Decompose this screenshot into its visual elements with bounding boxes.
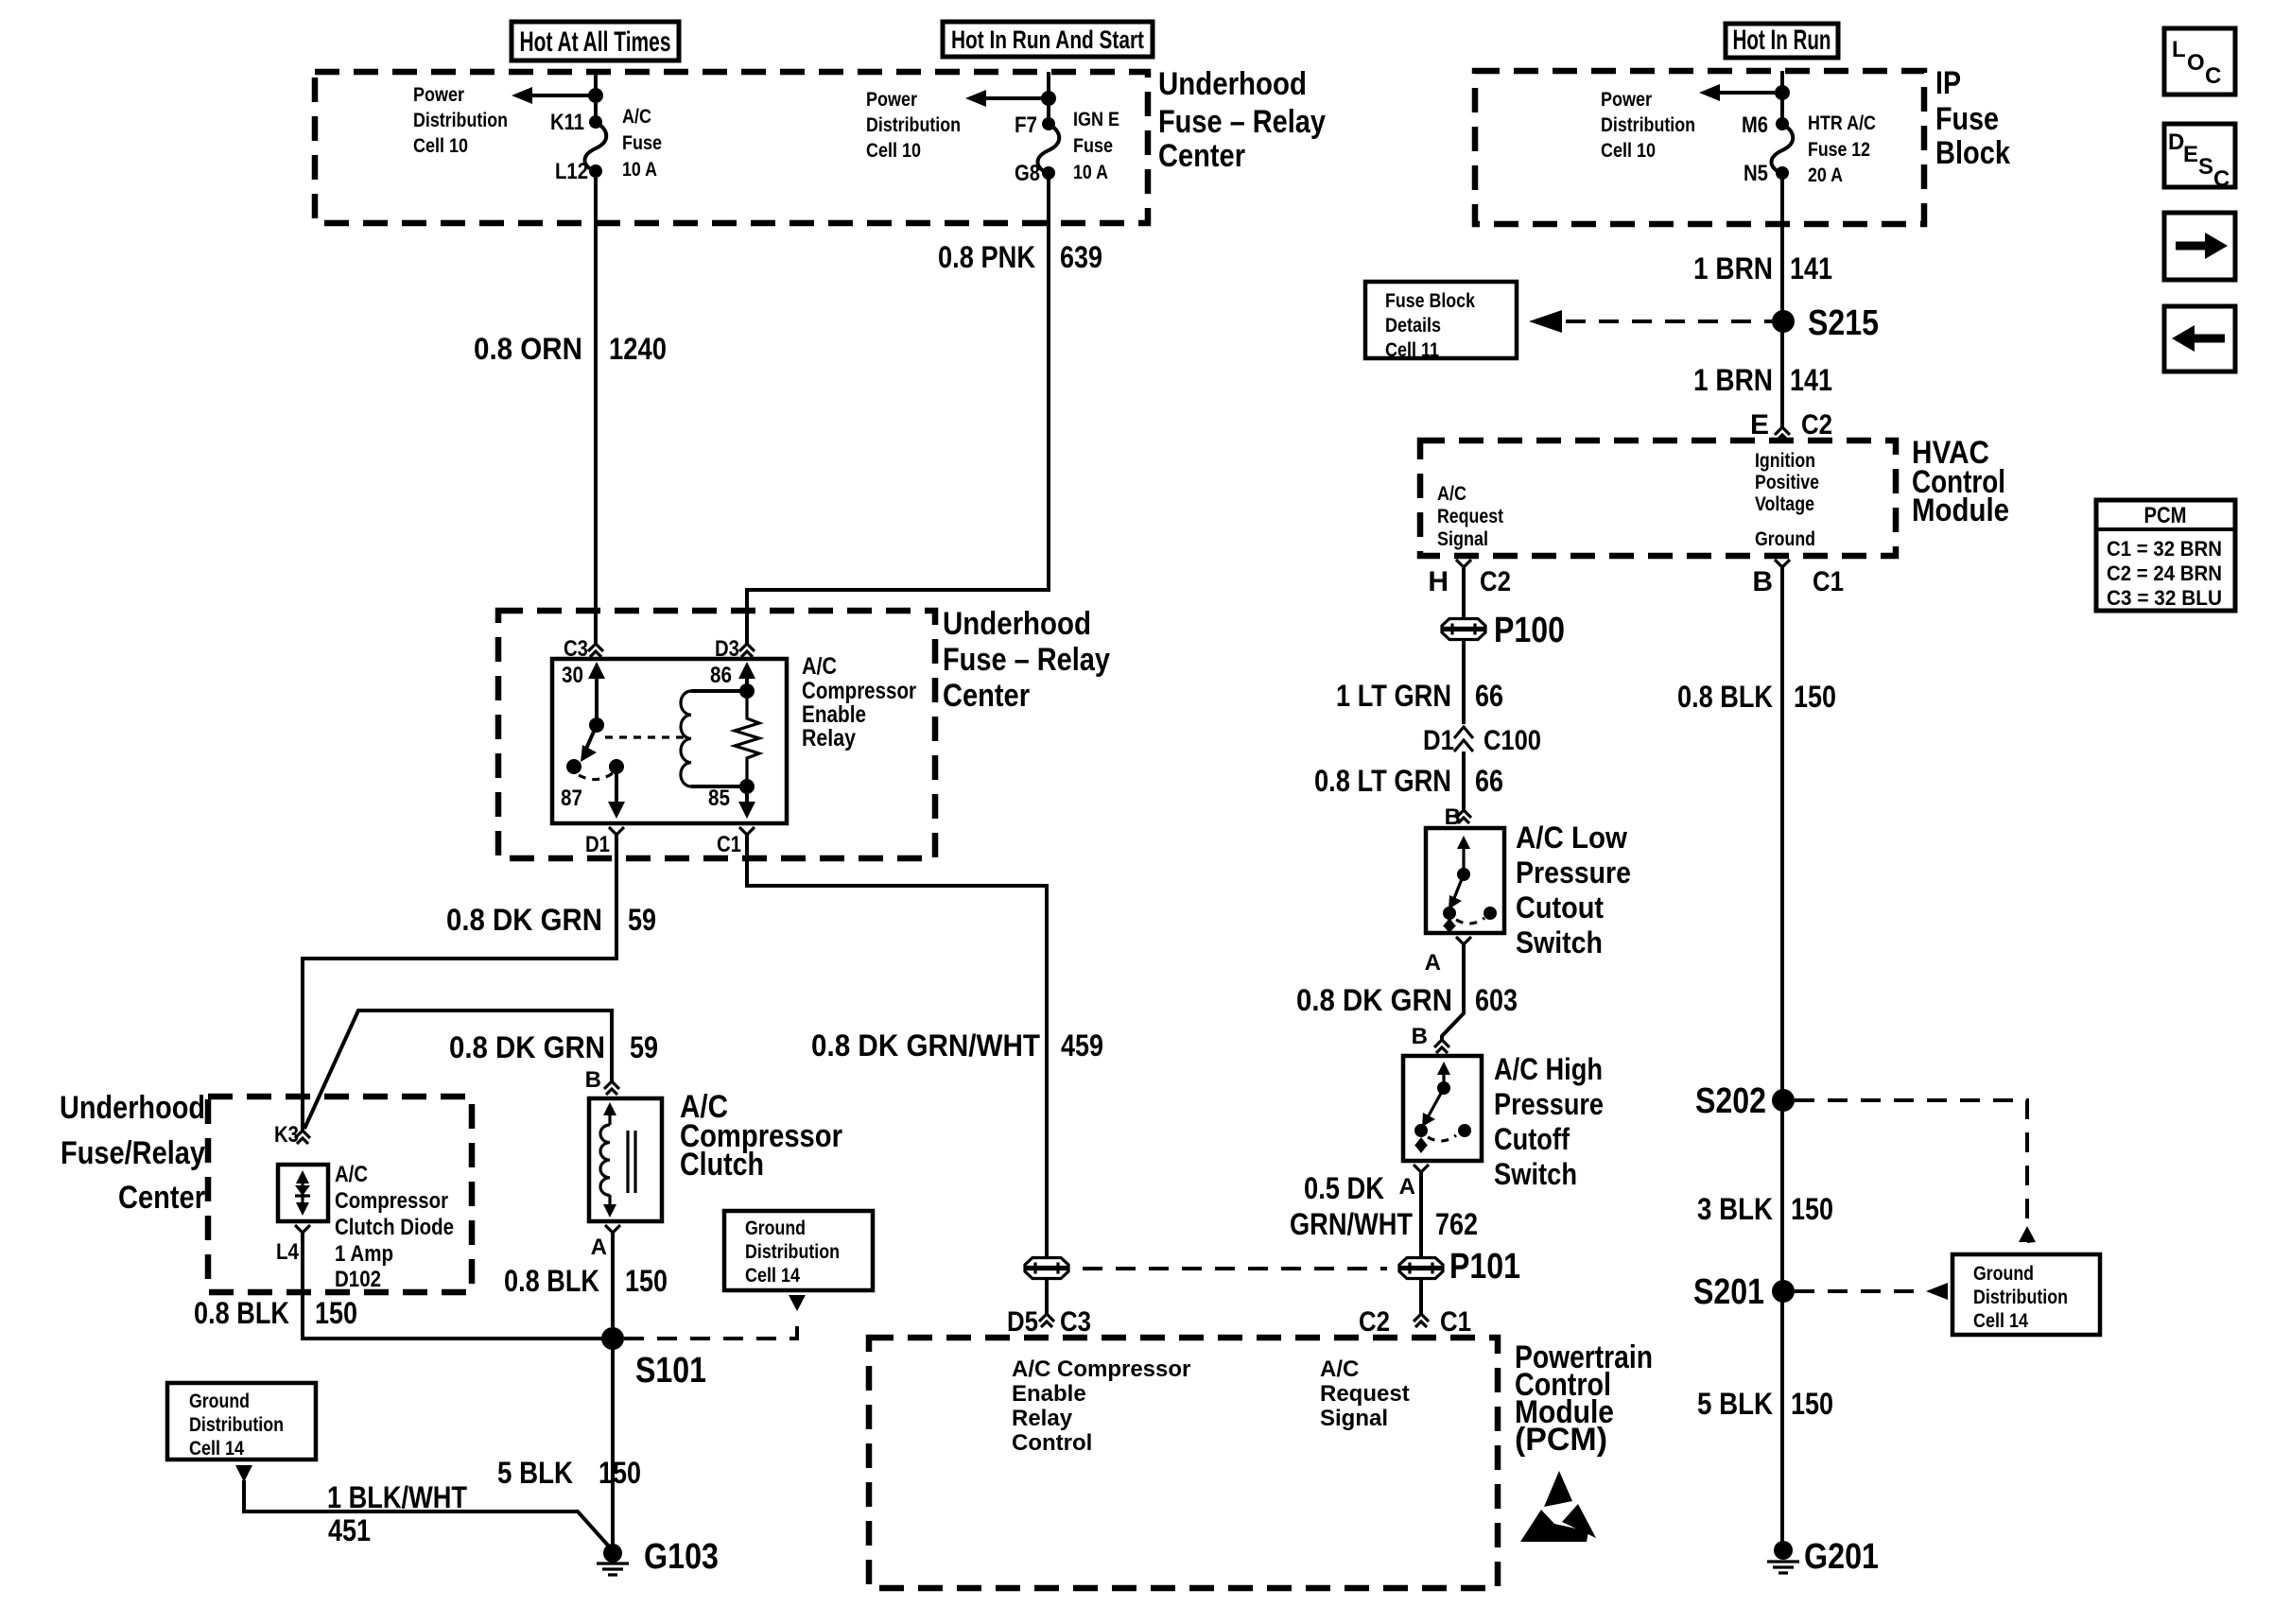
clutch A/C Compressor Clutch box [589, 1098, 662, 1221]
svg-text:Hot At All Times: Hot At All Times [520, 26, 671, 58]
wire branch from K3 node to A/C compressor clutch B [304, 1011, 612, 1129]
svg-text:C3: C3 [1060, 1306, 1091, 1338]
svg-text:C100: C100 [1484, 725, 1541, 756]
svg-text:Compressor: Compressor [802, 678, 916, 704]
svg-text:141: 141 [1790, 251, 1832, 285]
svg-text:Block: Block [1935, 135, 2010, 171]
wire 0.8 PNK 639 from fuse G8 down-left to relay D3 [747, 173, 1049, 644]
relay armature dashed throw arc [579, 773, 613, 780]
node DESC legend box [2164, 124, 2235, 192]
svg-text:150: 150 [315, 1296, 357, 1330]
connector C100 inline D1 [1423, 725, 1541, 756]
svg-text:A/C: A/C [622, 106, 651, 128]
relay coil [681, 662, 755, 794]
svg-text:Ground: Ground [1755, 528, 1815, 550]
connector D5 C3 into PCM [1007, 1306, 1091, 1338]
svg-text:Cell 10: Cell 10 [1601, 140, 1656, 162]
svg-text:C: C [2213, 166, 2230, 192]
svg-text:Distribution: Distribution [189, 1414, 284, 1436]
svg-text:0.8 DK GRN/WHT: 0.8 DK GRN/WHT [811, 1028, 1040, 1063]
wire 0.8 ORN 1240 from fuse L12 down to relay C3 [594, 171, 598, 644]
svg-text:Distribution: Distribution [866, 114, 961, 136]
svg-text:Compressor: Compressor [335, 1188, 448, 1214]
svg-text:Distribution: Distribution [1601, 114, 1695, 136]
connector B into high pressure switch [1412, 1024, 1449, 1053]
label 0.8 DK GRN 59 (lower) [449, 1030, 658, 1064]
svg-text:C1: C1 [717, 832, 741, 857]
wire 0.8 BLK 150 from L4 to S101 [303, 1233, 613, 1339]
svg-text:A/C High: A/C High [1494, 1052, 1603, 1086]
ground G201 [1767, 1537, 1879, 1577]
svg-text:Distribution: Distribution [1973, 1287, 2068, 1308]
relay A/C Compressor Enable Relay box [552, 659, 787, 823]
wire 0.8 DK GRN/WHT 459 from relay C1 to PCM D5 C3 [747, 835, 1047, 1258]
svg-text:P100: P100 [1494, 611, 1565, 650]
wire 0.8 DK GRN 59 from relay D1 down-left [303, 835, 616, 1131]
svg-text:A/C: A/C [1437, 483, 1466, 505]
svg-text:C2 = 24 BRN: C2 = 24 BRN [2107, 561, 2222, 585]
label 0.8 BLK 150 (right) [1677, 680, 1836, 714]
svg-text:Relay: Relay [1012, 1406, 1073, 1431]
svg-text:Fuse – Relay: Fuse – Relay [943, 642, 1110, 678]
PCM powertrain control module dashed box [869, 1338, 1498, 1588]
svg-text:Cell 14: Cell 14 [189, 1438, 244, 1460]
node LOC legend box [2164, 28, 2235, 95]
splice S201 [1693, 1272, 1795, 1312]
svg-text:Center: Center [1158, 138, 1245, 174]
fuse A/C Fuse 10A K11-L12 [584, 115, 606, 178]
connector L4 out of clutch diode [276, 1225, 310, 1265]
underhood fuse-relay center dashed box (top) [315, 72, 1148, 223]
svg-text:Cell 11: Cell 11 [1385, 339, 1439, 361]
svg-text:A/C Compressor: A/C Compressor [1012, 1356, 1190, 1382]
svg-text:59: 59 [630, 1030, 658, 1064]
svg-text:0.8 ORN: 0.8 ORN [474, 332, 582, 366]
diode D102 internals [295, 1170, 310, 1216]
svg-text:20 A: 20 A [1808, 164, 1843, 186]
svg-text:86: 86 [710, 663, 732, 688]
connector P101 pass-through [1398, 1247, 1520, 1287]
wire 0.8 BLK 150 from clutch A to S101 [611, 1233, 615, 1339]
wire arrow to Power Distribution (left) [512, 87, 603, 104]
svg-text:Fuse: Fuse [1073, 135, 1113, 157]
svg-text:B: B [1412, 1024, 1428, 1049]
splice S215 [1772, 303, 1879, 343]
label 0.8 DK GRN 59 (upper) [446, 903, 656, 937]
svg-text:87: 87 [561, 786, 582, 811]
dashed link between pass-through connectors [1083, 1267, 1387, 1270]
svg-text:Request: Request [1320, 1381, 1410, 1407]
svg-text:S201: S201 [1693, 1272, 1764, 1312]
svg-text:Center: Center [118, 1180, 205, 1216]
label 1 BLK/WHT 451 [327, 1480, 467, 1547]
label 0.8 DK GRN 603 [1296, 983, 1518, 1017]
label Underhood Fuse-Relay Center (relay) [943, 606, 1110, 714]
node Hot In Run header [1726, 24, 1838, 58]
label 1 LT GRN 66 [1336, 679, 1503, 713]
relay pin 87 contact [561, 759, 625, 819]
svg-text:0.8 DK GRN: 0.8 DK GRN [1296, 983, 1452, 1017]
svg-text:Clutch Diode: Clutch Diode [335, 1215, 454, 1240]
node Ground Distribution Cell 14 box (right) [1952, 1254, 2100, 1335]
svg-text:150: 150 [599, 1456, 641, 1490]
label A/C Compressor Enable Relay [802, 653, 916, 752]
svg-text:C: C [2205, 63, 2221, 89]
svg-text:66: 66 [1475, 764, 1503, 798]
svg-text:P101: P101 [1449, 1247, 1520, 1287]
node Hot In Run And Start header [943, 22, 1153, 57]
svg-text:E: E [2183, 142, 2198, 167]
splice S202 [1695, 1081, 1795, 1121]
svg-text:Underhood: Underhood [943, 606, 1091, 642]
svg-text:C1: C1 [1813, 566, 1844, 597]
svg-text:E: E [1750, 409, 1769, 441]
svg-text:C1: C1 [1440, 1306, 1471, 1338]
label 1 BRN 141 (upper) [1693, 251, 1832, 285]
connector A out of low pressure switch [1425, 937, 1471, 976]
svg-text:451: 451 [328, 1513, 371, 1547]
svg-text:459: 459 [1061, 1028, 1103, 1063]
svg-text:85: 85 [708, 786, 730, 811]
wire from Hot In Run And Start into fuse box [1047, 72, 1050, 124]
label A/C Request Signal (PCM) [1320, 1356, 1410, 1431]
wire from Hot At All Times into fuse box [594, 72, 598, 122]
svg-text:Ground: Ground [745, 1218, 806, 1239]
clutch coil internals [600, 1102, 635, 1218]
connector A out of clutch [591, 1225, 620, 1260]
node left-arrow legend box [2164, 306, 2235, 371]
svg-text:H: H [1428, 566, 1449, 597]
label 0.8 BLK 150 (clutch branch) [504, 1264, 668, 1298]
relay armature arrow from pin30 toward 87 [566, 725, 597, 774]
dashed reference from S201 to Ground Distribution [1795, 1283, 1948, 1300]
svg-text:0.8 DK GRN: 0.8 DK GRN [446, 903, 602, 937]
svg-text:1 BRN: 1 BRN [1693, 363, 1773, 397]
label A/C Request Signal (HVAC) [1437, 483, 1503, 550]
IP fuse block dashed box [1475, 71, 1924, 224]
svg-text:G8: G8 [1015, 161, 1040, 186]
label A/C Compressor Enable Relay Control (PCM) [1012, 1356, 1190, 1456]
svg-text:1 BLK/WHT: 1 BLK/WHT [327, 1480, 467, 1514]
label 1 BRN 141 (lower) [1693, 363, 1832, 397]
node Ground Distribution Cell 14 box (lower left) [167, 1383, 316, 1460]
underhood fuse-relay center dashed box (relay) [498, 611, 935, 858]
svg-text:0.8 LT GRN: 0.8 LT GRN [1314, 764, 1451, 798]
relay pin 85 lead [708, 786, 755, 819]
wire from P101 to PCM C2 C1 [1419, 1279, 1423, 1314]
svg-text:PCM: PCM [2144, 503, 2187, 528]
connector D3 into relay [715, 636, 755, 662]
svg-text:10 A: 10 A [1073, 162, 1108, 183]
svg-text:Positive: Positive [1755, 472, 1819, 493]
label Underhood Fuse-Relay Center (top) [1158, 66, 1326, 174]
label HVAC Control Module [1912, 435, 2009, 528]
wire 0.8 DK GRN 603 [1442, 944, 1464, 1040]
connector K3 into clutch diode [274, 1122, 310, 1148]
svg-text:Power: Power [413, 84, 464, 106]
svg-text:Ground: Ground [189, 1391, 250, 1412]
svg-text:3 BLK: 3 BLK [1697, 1192, 1773, 1226]
wire 1 LT GRN 66 [1462, 640, 1466, 724]
svg-text:1 Amp: 1 Amp [335, 1241, 393, 1267]
svg-text:G201: G201 [1804, 1537, 1879, 1577]
svg-text:S215: S215 [1808, 303, 1879, 343]
svg-text:Underhood: Underhood [60, 1090, 205, 1126]
label Power Distribution Cell 10 (left) [413, 84, 508, 157]
wire 0.8 BLK 150 from HVAC B C1 down to G201 [1780, 567, 1784, 1543]
svg-text:HTR A/C: HTR A/C [1808, 112, 1876, 134]
node Hot At All Times header [512, 22, 679, 60]
label IGN E Fuse 10 A [1073, 109, 1119, 183]
label Powertrain Control Module (PCM) [1515, 1339, 1653, 1458]
svg-text:0.8 BLK: 0.8 BLK [194, 1296, 289, 1330]
svg-text:C2: C2 [1480, 566, 1511, 597]
fuse HTR A/C Fuse 12 20A M6-N5 [1771, 117, 1793, 180]
fuse IGN E Fuse 10A F7-G8 [1037, 117, 1059, 180]
relay coil-armature dashed link [605, 735, 685, 738]
svg-text:1 BRN: 1 BRN [1693, 251, 1773, 285]
svg-text:Fuse: Fuse [622, 132, 662, 154]
svg-text:Relay: Relay [802, 725, 856, 752]
svg-text:IGN E: IGN E [1073, 109, 1119, 130]
connector C3 into relay [564, 636, 603, 662]
svg-text:150: 150 [1794, 680, 1836, 714]
wire from Hot In Run into IP fuse block [1780, 71, 1784, 124]
svg-text:Signal: Signal [1437, 528, 1488, 550]
svg-text:C2: C2 [1359, 1306, 1390, 1338]
svg-text:Ignition: Ignition [1755, 450, 1815, 472]
svg-text:Clutch: Clutch [680, 1147, 764, 1183]
ground G103 [597, 1537, 719, 1577]
svg-text:Pressure: Pressure [1494, 1087, 1604, 1121]
svg-text:30: 30 [562, 663, 583, 688]
svg-text:5 BLK: 5 BLK [1697, 1387, 1773, 1421]
relay coil suppression resistor [735, 691, 759, 786]
svg-text:S202: S202 [1695, 1081, 1766, 1121]
dashed reference from S101 to Ground Distribution [624, 1295, 806, 1339]
svg-text:B: B [585, 1067, 601, 1093]
svg-text:S101: S101 [635, 1351, 706, 1391]
svg-text:Ground: Ground [1973, 1263, 2034, 1285]
wire arrow to Power Distribution (right) [965, 90, 1056, 107]
svg-text:Details: Details [1385, 315, 1441, 337]
svg-text:0.8 DK GRN: 0.8 DK GRN [449, 1030, 605, 1064]
label A/C Low Pressure Cutout Switch [1516, 821, 1631, 959]
label A/C Compressor Clutch [680, 1089, 842, 1183]
svg-text:150: 150 [625, 1264, 668, 1298]
svg-text:Switch: Switch [1516, 925, 1603, 959]
svg-text:Pressure: Pressure [1516, 855, 1631, 890]
svg-text:Switch: Switch [1494, 1157, 1577, 1191]
svg-text:D1: D1 [1423, 725, 1454, 756]
connector B C1 out of HVAC [1752, 560, 1844, 597]
svg-text:B: B [1752, 566, 1773, 597]
svg-text:GRN/WHT: GRN/WHT [1290, 1207, 1413, 1241]
svg-text:5 BLK: 5 BLK [497, 1456, 573, 1490]
splice S101 [601, 1327, 706, 1391]
underhood fuse/relay center dashed box (diode) [208, 1097, 472, 1292]
svg-text:Fuse: Fuse [1935, 101, 1999, 137]
svg-text:10 A: 10 A [622, 159, 657, 181]
connector P100 pass-through [1441, 611, 1565, 650]
wire 0.5 DK GRN/WHT 762 [1419, 1172, 1423, 1257]
svg-text:A/C: A/C [802, 653, 837, 680]
svg-text:Underhood: Underhood [1158, 66, 1307, 102]
svg-text:Distribution: Distribution [745, 1241, 840, 1263]
label HTR A/C Fuse 12 20 A [1808, 112, 1876, 186]
label 0.8 DK GRN/WHT 459 [811, 1028, 1103, 1063]
svg-text:150: 150 [1791, 1192, 1833, 1226]
low pressure switch internals [1443, 836, 1497, 933]
node right-arrow legend box [2164, 213, 2235, 280]
svg-text:0.8 BLK: 0.8 BLK [504, 1264, 599, 1298]
label Underhood Fuse/Relay Center [60, 1090, 205, 1216]
svg-text:M6: M6 [1742, 112, 1768, 138]
label Power Distribution Cell 10 (IP) [1601, 89, 1695, 162]
wire 0.8 LT GRN 66 [1462, 752, 1466, 810]
svg-text:Hot In Run And Start: Hot In Run And Start [951, 26, 1144, 54]
label A/C Fuse 10 A [622, 106, 662, 181]
node Ground Distribution Cell 14 box (near clutch) [724, 1211, 873, 1290]
svg-text:K3: K3 [274, 1122, 299, 1148]
svg-text:Cutout: Cutout [1516, 890, 1604, 924]
wire arrow to Power Distribution (IP) [1699, 84, 1790, 101]
connector B into low pressure switch [1445, 804, 1471, 830]
diode D102 A/C compressor clutch diode box [278, 1165, 328, 1221]
svg-text:C3 = 32 BLU: C3 = 32 BLU [2107, 586, 2222, 610]
svg-text:0.8 BLK: 0.8 BLK [1677, 680, 1773, 714]
connector D1 out of relay [585, 827, 624, 857]
svg-text:A/C: A/C [335, 1162, 368, 1187]
label A/C High Pressure Cutoff Switch [1494, 1052, 1604, 1191]
svg-text:F7: F7 [1015, 112, 1037, 138]
connector pass-through on PCM D5 C3 wire [1024, 1258, 1069, 1279]
svg-text:Module: Module [1912, 492, 2009, 528]
label 3 BLK 150 [1697, 1192, 1833, 1226]
svg-text:Fuse/Relay: Fuse/Relay [61, 1135, 205, 1171]
svg-text:Center: Center [943, 678, 1030, 714]
relay pin 30 contact arm [562, 662, 605, 733]
svg-text:639: 639 [1060, 240, 1102, 274]
label Power Distribution Cell 10 (right) [866, 89, 961, 162]
svg-text:1240: 1240 [609, 332, 667, 366]
switch A/C Low Pressure Cutout Switch box [1426, 828, 1504, 933]
svg-text:C2: C2 [1801, 409, 1832, 441]
svg-text:59: 59 [628, 903, 656, 937]
label 5 BLK 150 (left) [497, 1456, 641, 1490]
label 0.8 ORN 1240 [474, 332, 667, 366]
svg-text:K11: K11 [550, 110, 584, 135]
wire 1 BLK/WHT 451 from Ground Distribution to G103 [235, 1465, 610, 1547]
svg-text:Enable: Enable [1012, 1381, 1086, 1407]
svg-text:D1: D1 [585, 832, 610, 857]
svg-text:D102: D102 [335, 1267, 381, 1292]
label A/C Compressor Clutch Diode 1 Amp D102 [335, 1162, 454, 1292]
node Fuse Block Details Cell 11 box [1365, 282, 1517, 361]
connector B into A/C compressor clutch [585, 1067, 619, 1095]
svg-text:G103: G103 [644, 1537, 719, 1577]
svg-text:IP: IP [1935, 65, 1961, 101]
svg-text:Hot In Run: Hot In Run [1733, 25, 1831, 56]
svg-text:L4: L4 [276, 1239, 300, 1265]
wire 1 BRN 141 from fuse N5 to HVAC E C2 [1780, 173, 1784, 427]
svg-text:0.5 DK: 0.5 DK [1304, 1171, 1384, 1205]
svg-text:0.8 PNK: 0.8 PNK [938, 240, 1035, 274]
connector C1 out of relay [717, 827, 755, 857]
svg-text:C1 = 32 BRN: C1 = 32 BRN [2107, 537, 2222, 561]
svg-text:N5: N5 [1744, 161, 1768, 186]
connector H C2 out of HVAC [1428, 560, 1511, 597]
svg-text:L: L [2172, 37, 2186, 62]
svg-text:Fuse 12: Fuse 12 [1808, 139, 1870, 161]
svg-text:Cell 10: Cell 10 [866, 140, 921, 162]
dashed reference from S202 to Ground Distribution [1795, 1100, 2036, 1243]
svg-text:A: A [1399, 1174, 1415, 1200]
svg-text:S: S [2198, 154, 2213, 180]
svg-text:Distribution: Distribution [413, 110, 508, 131]
svg-text:L12: L12 [555, 159, 588, 184]
HVAC control module dashed box [1420, 441, 1896, 556]
connector C2 C1 into PCM [1359, 1306, 1471, 1338]
svg-text:Signal: Signal [1320, 1406, 1388, 1431]
svg-text:A: A [1425, 950, 1441, 976]
svg-text:150: 150 [1791, 1387, 1833, 1421]
svg-text:Request: Request [1437, 506, 1503, 527]
label Ignition Positive Voltage / Ground (HVAC) [1755, 450, 1819, 550]
connector E C2 into HVAC [1750, 409, 1832, 441]
label 0.8 PNK 639 [938, 240, 1102, 274]
svg-text:Power: Power [866, 89, 917, 111]
high pressure switch internals [1414, 1062, 1471, 1153]
svg-text:Power: Power [1601, 89, 1652, 111]
svg-text:Cutoff: Cutoff [1494, 1122, 1570, 1156]
wire 5 BLK 150 from S101 to G103 [611, 1339, 615, 1545]
label 0.5 DK GRN/WHT 762 [1290, 1171, 1478, 1241]
wire from HVAC H C2 down [1462, 567, 1466, 618]
label 0.8 LT GRN 66 [1314, 764, 1503, 798]
wire into PCM D5 C3 [1045, 1279, 1049, 1314]
svg-text:A/C Low: A/C Low [1516, 821, 1627, 855]
ESD sensitive device symbol [1520, 1471, 1596, 1542]
connector A out of high pressure switch [1399, 1165, 1429, 1200]
svg-text:D: D [2168, 130, 2184, 155]
svg-text:Fuse – Relay: Fuse – Relay [1158, 104, 1326, 140]
dashed reference wire from S215 to Fuse Block Details [1529, 310, 1772, 333]
svg-text:O: O [2187, 50, 2205, 76]
svg-text:(PCM): (PCM) [1515, 1422, 1607, 1458]
svg-text:Control: Control [1012, 1430, 1092, 1456]
svg-text:66: 66 [1475, 679, 1503, 713]
svg-text:141: 141 [1790, 363, 1832, 397]
svg-text:1 LT GRN: 1 LT GRN [1336, 679, 1451, 713]
switch A/C High Pressure Cutoff Switch box [1403, 1056, 1482, 1161]
svg-text:A/C: A/C [1320, 1356, 1359, 1382]
svg-text:Fuse Block: Fuse Block [1385, 290, 1475, 312]
svg-text:Enable: Enable [802, 701, 866, 728]
label 5 BLK 150 (right) [1697, 1387, 1833, 1421]
svg-text:Cell 14: Cell 14 [745, 1265, 800, 1287]
svg-text:762: 762 [1435, 1207, 1478, 1241]
svg-text:Voltage: Voltage [1755, 493, 1814, 515]
svg-text:603: 603 [1475, 983, 1518, 1017]
label IP Fuse Block [1935, 65, 2010, 171]
label 0.8 BLK 150 (diode branch) [194, 1296, 357, 1330]
svg-text:A: A [591, 1235, 607, 1260]
svg-text:D5: D5 [1007, 1306, 1038, 1338]
svg-text:Cell 10: Cell 10 [413, 135, 468, 157]
svg-text:Cell 14: Cell 14 [1973, 1310, 2028, 1332]
node PCM connector legend table [2096, 500, 2235, 611]
